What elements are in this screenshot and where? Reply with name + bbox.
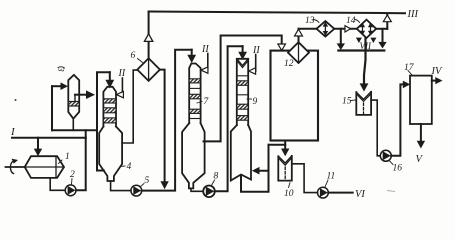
wire pump2 recycle riser xyxy=(76,138,85,191)
svg-text:13: 13 xyxy=(305,16,315,26)
svg-text:5: 5 xyxy=(145,176,150,186)
column 7 lower shell xyxy=(182,123,205,188)
wire condenser6 condensate leg to column 4 xyxy=(122,70,137,143)
column 4 lower shell xyxy=(99,127,122,182)
wire riser from cooler line to top header xyxy=(386,15,388,29)
wire vessel3 vapor arrow to column4 riser xyxy=(74,95,76,102)
svg-text:I: I xyxy=(10,126,16,138)
wire settler bottoms to decanter 10 xyxy=(284,145,286,150)
svg-text:6: 6 xyxy=(131,51,136,61)
wire column7 bottoms to pump 8 xyxy=(191,188,203,191)
condenser 6 xyxy=(137,58,160,81)
condenser 12 xyxy=(288,42,309,63)
svg-text:IV: IV xyxy=(431,66,443,77)
pump P11 xyxy=(318,187,329,198)
svg-text:12: 12 xyxy=(284,59,294,69)
wire mixer1 bottoms to pump 2 xyxy=(50,178,65,190)
wire pump8 discharge riser to column9 top xyxy=(215,46,243,191)
svg-text:14: 14 xyxy=(346,16,356,26)
node IV product arrow xyxy=(432,80,437,82)
column 4 xyxy=(103,87,116,127)
wire settler bottoms header xyxy=(284,141,286,145)
wire column7 side draw riser to settler xyxy=(204,36,282,142)
wire column4 bottoms to pump 5 xyxy=(111,181,131,191)
svg-text:7: 7 xyxy=(204,97,210,107)
wire decanter10 to pump 11 xyxy=(292,164,318,193)
wire pump16 discharge to tank 17 xyxy=(391,84,403,155)
wire separator15 to pump16 xyxy=(371,100,380,156)
pump P2 xyxy=(65,185,76,196)
svg-text:9: 9 xyxy=(253,97,258,107)
column 9 lower shell xyxy=(231,125,251,180)
svg-text:15: 15 xyxy=(342,97,352,107)
mixer 1 rotation arrow xyxy=(10,161,14,174)
vessel 3 xyxy=(68,75,79,119)
node V bottoms arrow xyxy=(420,124,422,142)
svg-text:III: III xyxy=(407,9,419,20)
wire settler vapor riser to exchanger line xyxy=(298,29,300,42)
pump P16 xyxy=(380,150,391,161)
cooler 14 xyxy=(357,20,376,38)
svg-text:VI: VI xyxy=(355,189,365,200)
svg-text:1: 1 xyxy=(65,152,70,162)
wire riser to vessel 3 inlet xyxy=(51,86,53,130)
svg-text:2: 2 xyxy=(70,170,75,180)
tank 17 xyxy=(410,76,432,124)
wire condensate down to separator 15 xyxy=(364,38,366,85)
wire condensate manifold VII xyxy=(338,49,384,51)
column 9 xyxy=(237,59,248,125)
wire condenser6 right leg down to pump5 discharge xyxy=(160,70,165,182)
wire drop from line into manifold right xyxy=(382,29,384,43)
wire riser into column 4 top xyxy=(97,72,110,170)
mixer 1 drive shaft xyxy=(6,166,25,168)
wire settler bottoms to column9 side xyxy=(259,145,269,171)
pump P8 xyxy=(203,186,215,198)
svg-text:V: V xyxy=(416,154,424,165)
svg-text:16: 16 xyxy=(393,164,403,174)
wire feed drop into mixer 1 xyxy=(37,138,39,150)
wire exchanger train line xyxy=(299,28,317,30)
svg-text:4: 4 xyxy=(127,162,132,172)
column 7 xyxy=(189,64,200,124)
wire feed I header xyxy=(12,137,86,139)
separator 15 xyxy=(356,92,371,115)
wire column9 bottoms U-loop xyxy=(241,171,269,192)
label 3 xyxy=(56,65,67,72)
wire pump2 riser upper leg xyxy=(85,130,87,137)
decanter 10 xyxy=(278,156,292,181)
pump P5 xyxy=(131,185,142,196)
mixer 1 xyxy=(25,156,64,178)
wire condenser6 vapor riser to top header xyxy=(148,12,150,59)
wire vessel3 bottoms stub xyxy=(72,119,74,131)
wire drop from line into manifold left xyxy=(340,29,342,45)
settler drum xyxy=(271,51,319,141)
wire recirculation header H1 xyxy=(52,129,97,131)
wire pump11 discharge to VI xyxy=(328,192,352,194)
svg-text:10: 10 xyxy=(284,189,294,199)
wire pump5 discharge riser to column7 top xyxy=(142,50,192,191)
wire top header to III xyxy=(149,12,405,14)
artifact dot xyxy=(15,99,17,101)
wire cooler14 bottom arrows xyxy=(356,38,362,43)
cooler 13 xyxy=(317,21,335,36)
artifact dash xyxy=(388,191,395,192)
